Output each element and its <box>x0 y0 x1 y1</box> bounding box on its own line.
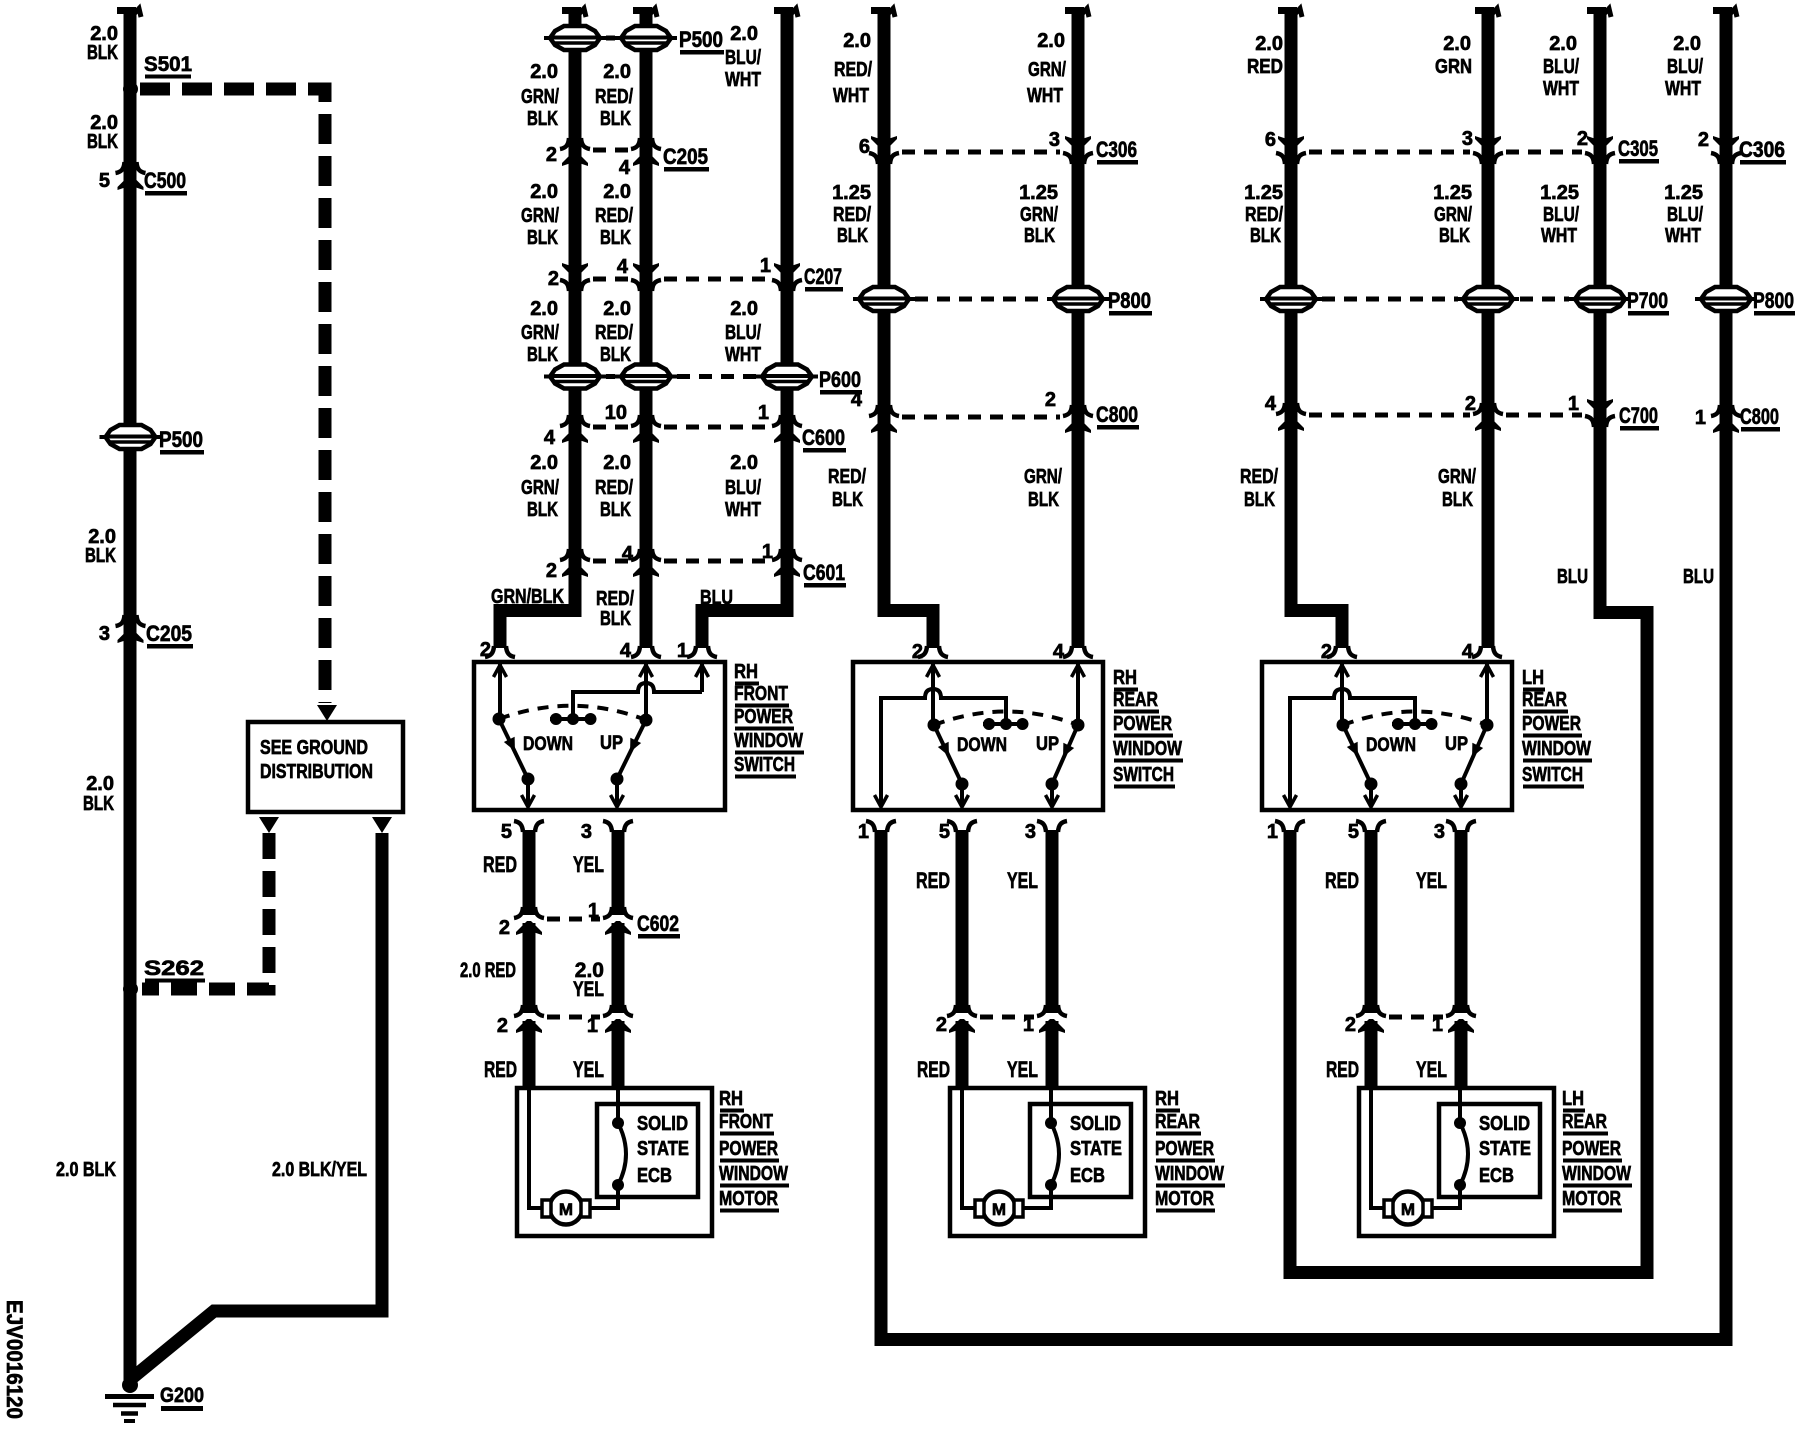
svg-text:MOTOR: MOTOR <box>719 1188 778 1210</box>
svg-text:WHT: WHT <box>1541 225 1577 247</box>
svg-text:3: 3 <box>581 821 592 843</box>
svg-text:SWITCH: SWITCH <box>734 754 795 776</box>
svg-text:4: 4 <box>617 256 629 278</box>
svg-text:GRN: GRN <box>1435 56 1472 78</box>
svg-text:C500: C500 <box>144 168 186 193</box>
svg-text:MOTOR: MOTOR <box>1562 1188 1621 1210</box>
svg-text:G200: G200 <box>160 1384 204 1407</box>
svg-text:1: 1 <box>1695 407 1706 429</box>
svg-text:POWER: POWER <box>1562 1138 1621 1160</box>
svg-text:S262: S262 <box>144 957 204 980</box>
splice S501 <box>123 53 192 97</box>
motor connector front pins 2 1 <box>497 1005 633 1037</box>
splice S262 <box>123 957 205 997</box>
svg-text:GRN/: GRN/ <box>521 322 559 344</box>
wire RED to rear motor <box>956 1021 969 1088</box>
wire YEL from LH rear switch pin 3 <box>1455 830 1468 1013</box>
svg-text:BLK: BLK <box>85 545 116 567</box>
label RED/BLK (E1) <box>1240 466 1278 511</box>
label YEL rear lower <box>1007 1057 1038 1082</box>
label 1.25 RED/BLK <box>832 182 871 247</box>
svg-text:3: 3 <box>1434 821 1445 843</box>
wire RED to front motor <box>523 1021 536 1088</box>
wire YEL from switch pin 3 <box>612 830 625 915</box>
svg-text:C305: C305 <box>1618 136 1658 161</box>
RH front power window switch box <box>474 662 725 810</box>
svg-text:5: 5 <box>99 170 110 192</box>
svg-text:2: 2 <box>499 917 510 939</box>
label RED lower <box>484 1057 517 1082</box>
svg-text:GRN/: GRN/ <box>1028 59 1066 81</box>
svg-text:GRN/BLK: GRN/BLK <box>491 586 564 608</box>
svg-text:S501: S501 <box>144 53 192 76</box>
svg-text:5: 5 <box>501 821 512 843</box>
label 2.0 GRN/BLK block4 <box>521 452 559 521</box>
label BLU (E4) <box>1683 566 1714 588</box>
svg-text:4: 4 <box>544 427 556 449</box>
RH front power window motor <box>517 1088 712 1236</box>
svg-text:BLK: BLK <box>87 42 118 64</box>
label 2.0 RED/BLK block1 <box>595 61 633 130</box>
svg-text:BLK: BLK <box>600 608 631 630</box>
svg-text:6: 6 <box>1265 129 1276 151</box>
connector C305 pins 6 3 2 <box>1265 128 1659 164</box>
svg-text:BLK: BLK <box>1244 489 1275 511</box>
svg-text:3: 3 <box>1049 129 1060 151</box>
switch pin numbers LH rear <box>1267 641 1474 843</box>
label BLU (E3) <box>1557 566 1588 588</box>
wire 2.0 RED/BLK (RH front) <box>633 7 657 648</box>
svg-text:2: 2 <box>546 560 557 582</box>
svg-text:1.25: 1.25 <box>832 182 871 204</box>
switch pin 5 terminal below <box>501 821 544 843</box>
svg-text:2: 2 <box>1465 393 1476 415</box>
label 2.0 BLK (fourth) <box>83 773 114 815</box>
connector C700 pins 4 2 1 <box>1265 393 1659 431</box>
svg-text:GRN/: GRN/ <box>1024 466 1062 488</box>
label GRN/BLK (E2) <box>1438 466 1476 511</box>
svg-text:2.0: 2.0 <box>730 23 758 45</box>
svg-text:1: 1 <box>1267 821 1278 843</box>
svg-text:UP: UP <box>1036 734 1059 755</box>
wire 2.0 BLU/WHT (far right) <box>1713 7 1737 1346</box>
svg-text:RED: RED <box>917 1057 950 1082</box>
connector C306 pins 6 3 <box>859 129 1138 165</box>
svg-text:C306: C306 <box>1096 137 1137 162</box>
svg-text:2.0: 2.0 <box>530 181 558 203</box>
svg-text:FRONT: FRONT <box>719 1111 773 1133</box>
svg-text:4: 4 <box>620 640 632 662</box>
svg-text:SWITCH: SWITCH <box>1113 764 1174 786</box>
svg-text:GRN/: GRN/ <box>521 477 559 499</box>
label 2.0 GRN/BLK block3 <box>521 298 559 366</box>
svg-text:RED/: RED/ <box>1240 466 1278 488</box>
svg-text:BLK: BLK <box>600 344 631 366</box>
svg-text:RED/: RED/ <box>1245 204 1283 226</box>
wire YEL to LH motor <box>1455 1021 1468 1088</box>
wire 2.0 GRN (LH rear) <box>1475 7 1499 648</box>
label 2.0 BLK (top) <box>87 23 118 64</box>
svg-text:1: 1 <box>858 821 869 843</box>
label 1.25 GRN/BLK (E2) <box>1433 182 1472 247</box>
label YEL <box>573 852 604 877</box>
label RED/BLK <box>596 588 634 630</box>
svg-text:1: 1 <box>760 255 771 277</box>
svg-text:WHT: WHT <box>1027 85 1063 107</box>
wire from RH rear switch pin 1 <box>875 830 888 1346</box>
svg-text:RED/: RED/ <box>595 86 633 108</box>
svg-text:2.0: 2.0 <box>530 61 558 83</box>
label LH REAR POWER WINDOW MOTOR <box>1562 1088 1632 1213</box>
label GRN/BLK <box>491 586 564 608</box>
wire dashed from box to splice S262 <box>142 833 269 989</box>
label YEL LH lower <box>1416 1057 1447 1082</box>
svg-text:POWER: POWER <box>719 1138 778 1160</box>
svg-text:WINDOW: WINDOW <box>1522 738 1591 760</box>
svg-text:C205: C205 <box>146 621 192 646</box>
svg-text:SOLID: SOLID <box>1479 1113 1530 1135</box>
label LH REAR POWER WINDOW SWITCH <box>1522 667 1592 789</box>
svg-text:SOLID: SOLID <box>637 1113 688 1135</box>
wire 2.0 RED <box>523 923 536 1013</box>
svg-text:WHT: WHT <box>725 499 761 521</box>
svg-text:SEE GROUND: SEE GROUND <box>260 737 368 759</box>
svg-text:C601: C601 <box>803 560 845 585</box>
svg-text:BLU/: BLU/ <box>725 477 761 499</box>
svg-text:WHT: WHT <box>1665 78 1701 100</box>
svg-text:2.0: 2.0 <box>603 61 631 83</box>
svg-text:SOLID: SOLID <box>1070 1113 1121 1135</box>
figure number EJV0016120 <box>2 1300 27 1419</box>
svg-text:2.0: 2.0 <box>730 298 758 320</box>
svg-text:BLU/: BLU/ <box>1667 204 1703 226</box>
connector C205 pin 3 on left wire <box>99 615 193 649</box>
label 2.0 RED/BLK block3 <box>595 298 633 366</box>
svg-text:WINDOW: WINDOW <box>734 730 803 752</box>
svg-text:WHT: WHT <box>833 85 869 107</box>
svg-text:RED/: RED/ <box>595 205 633 227</box>
svg-text:POWER: POWER <box>1522 713 1581 735</box>
motor connector rear pins 2 1 <box>936 1005 1067 1036</box>
svg-text:DISTRIBUTION: DISTRIBUTION <box>260 761 373 783</box>
svg-text:RH: RH <box>1155 1088 1179 1110</box>
svg-text:2.0 BLK: 2.0 BLK <box>56 1159 116 1181</box>
label YEL LH <box>1416 868 1447 893</box>
wire YEL from RH rear switch pin 3 <box>1046 830 1059 1013</box>
svg-text:BLU/: BLU/ <box>1543 204 1579 226</box>
svg-text:REAR: REAR <box>1113 689 1158 711</box>
svg-text:RED/: RED/ <box>595 322 633 344</box>
svg-text:LH: LH <box>1562 1088 1584 1110</box>
svg-text:C800: C800 <box>1096 402 1138 427</box>
svg-text:GRN/: GRN/ <box>521 205 559 227</box>
svg-text:2: 2 <box>480 639 491 661</box>
svg-text:C207: C207 <box>804 264 842 289</box>
connector C205 pins 2 and 4 <box>546 138 709 179</box>
wire YEL to rear motor <box>1046 1021 1059 1088</box>
svg-text:5: 5 <box>1348 821 1359 843</box>
wire from LH rear switch pin 1 <box>1284 830 1654 1279</box>
svg-text:WHT: WHT <box>725 344 761 366</box>
svg-text:LH: LH <box>1522 667 1544 689</box>
wire 2.0 GRN/BLK (RH front) <box>494 7 587 648</box>
svg-text:BLK: BLK <box>1024 225 1055 247</box>
label 2.0 GRN/WHT <box>1027 30 1066 107</box>
svg-text:BLK: BLK <box>1439 225 1470 247</box>
label YEL lower <box>573 1057 604 1082</box>
label 2.0 BLU/WHT block4 <box>725 452 761 521</box>
arrow out of box left <box>259 817 279 833</box>
label 2.0 BLU/WHT (E4) <box>1665 33 1703 100</box>
label 2.0 RED <box>460 959 516 982</box>
svg-text:C700: C700 <box>1619 403 1658 428</box>
svg-text:WHT: WHT <box>725 69 761 91</box>
grommet P800 pair <box>853 287 1152 316</box>
svg-text:WINDOW: WINDOW <box>1113 738 1182 760</box>
svg-text:BLK: BLK <box>837 225 868 247</box>
svg-text:2.0: 2.0 <box>1037 30 1065 52</box>
svg-text:BLK: BLK <box>527 499 558 521</box>
label BLU <box>700 587 733 609</box>
switch pin 2 terminal <box>480 639 515 661</box>
svg-text:2.0: 2.0 <box>603 452 631 474</box>
svg-text:STATE: STATE <box>637 1138 689 1160</box>
svg-text:STATE: STATE <box>1479 1138 1531 1160</box>
svg-text:M: M <box>992 1200 1006 1219</box>
svg-text:RED: RED <box>1325 868 1359 893</box>
svg-text:DOWN: DOWN <box>1366 735 1416 756</box>
svg-text:RH: RH <box>734 661 758 683</box>
motor connector LH pins 2 1 <box>1345 1005 1476 1036</box>
svg-text:STATE: STATE <box>1070 1138 1122 1160</box>
svg-text:2: 2 <box>497 1015 508 1037</box>
arrow into ground distribution box <box>317 705 337 721</box>
label RED rear <box>916 868 950 893</box>
svg-text:2: 2 <box>1321 641 1332 663</box>
wire RED from LH rear switch pin 5 <box>1365 830 1378 1013</box>
ground G200 <box>105 1377 204 1421</box>
LH rear power window switch <box>1262 646 1512 832</box>
connector C306 pin 2 far right <box>1698 129 1786 165</box>
svg-text:1: 1 <box>1023 1014 1034 1036</box>
RH rear power window switch <box>853 646 1103 832</box>
svg-text:REAR: REAR <box>1522 689 1567 711</box>
connector C800 pins 4 2 <box>851 389 1139 433</box>
connector C500 pin 5 <box>99 162 187 196</box>
svg-text:BLU: BLU <box>1557 566 1588 588</box>
svg-text:RED: RED <box>483 852 517 877</box>
svg-text:BLK: BLK <box>600 499 631 521</box>
svg-text:MOTOR: MOTOR <box>1155 1188 1214 1210</box>
svg-text:1.25: 1.25 <box>1244 182 1283 204</box>
svg-text:GRN/: GRN/ <box>521 86 559 108</box>
svg-text:YEL: YEL <box>1007 868 1038 893</box>
svg-text:BLU/: BLU/ <box>1543 56 1579 78</box>
svg-text:UP: UP <box>1445 734 1468 755</box>
svg-text:3: 3 <box>1462 128 1473 150</box>
svg-text:SWITCH: SWITCH <box>1522 764 1583 786</box>
svg-text:2: 2 <box>548 268 559 290</box>
label 2.0 BLU/WHT (E3) <box>1543 33 1579 100</box>
svg-text:2: 2 <box>912 641 923 663</box>
svg-text:WINDOW: WINDOW <box>1155 1163 1224 1185</box>
label 2.0 RED <box>1247 33 1283 78</box>
svg-text:RH: RH <box>719 1088 743 1110</box>
svg-text:2.0 RED: 2.0 RED <box>460 959 516 982</box>
svg-text:RED/: RED/ <box>828 466 866 488</box>
svg-text:2: 2 <box>936 1014 947 1036</box>
svg-text:2.0 BLK/YEL: 2.0 BLK/YEL <box>272 1159 367 1181</box>
svg-text:2.0: 2.0 <box>1443 33 1471 55</box>
svg-text:RED/: RED/ <box>596 588 634 610</box>
label 2.0 RED/BLK block4 <box>595 452 633 521</box>
connector C601 pins 2 4 1 <box>546 541 846 588</box>
wire 2.0 RED/WHT (RH rear) <box>871 7 940 648</box>
box SEE GROUND DISTRIBUTION <box>248 722 403 812</box>
svg-text:2.0: 2.0 <box>530 452 558 474</box>
svg-text:2.0: 2.0 <box>86 773 114 795</box>
grommet P800 far right <box>1695 287 1795 316</box>
wire 2.0 BLU/WHT (RH front) <box>696 7 799 648</box>
connector C600 pins 4 10 1 <box>544 402 846 453</box>
svg-text:RED/: RED/ <box>595 477 633 499</box>
svg-text:4: 4 <box>619 157 631 179</box>
svg-text:1: 1 <box>587 1015 598 1037</box>
svg-text:YEL: YEL <box>1416 868 1447 893</box>
svg-text:WHT: WHT <box>1543 78 1579 100</box>
svg-text:BLK: BLK <box>83 793 114 815</box>
svg-text:1.25: 1.25 <box>1019 182 1058 204</box>
svg-text:BLU: BLU <box>1683 566 1714 588</box>
label RED rear lower <box>917 1057 950 1082</box>
svg-text:ECB: ECB <box>1070 1165 1105 1187</box>
svg-text:BLK: BLK <box>87 131 118 153</box>
svg-text:C800: C800 <box>1740 404 1779 429</box>
grommet P700 row <box>1260 287 1669 316</box>
svg-text:BLK: BLK <box>600 227 631 249</box>
svg-text:RED: RED <box>1247 56 1283 78</box>
svg-text:2.0: 2.0 <box>603 181 631 203</box>
svg-text:1: 1 <box>1568 393 1579 415</box>
svg-text:M: M <box>1401 1200 1415 1219</box>
wire YEL to front motor <box>612 1021 625 1088</box>
arrow out of box right <box>372 817 392 833</box>
connector C800 pin 1 far right <box>1695 404 1780 433</box>
svg-text:GRN/: GRN/ <box>1020 204 1058 226</box>
svg-text:10: 10 <box>605 402 627 424</box>
wire 2.0 BLK/YEL from box to ground <box>131 833 382 1379</box>
svg-text:C600: C600 <box>802 425 845 450</box>
svg-text:1.25: 1.25 <box>1540 182 1579 204</box>
grommet P500 on left wire <box>100 425 205 455</box>
wire RED from switch pin 5 <box>523 830 536 915</box>
label YEL rear <box>1007 868 1038 893</box>
svg-text:2.0: 2.0 <box>603 298 631 320</box>
svg-text:BLK: BLK <box>1442 489 1473 511</box>
svg-text:P700: P700 <box>1627 288 1668 313</box>
svg-text:RED: RED <box>484 1057 517 1082</box>
wire 2.0 GRN/WHT (RH rear) <box>1065 7 1089 648</box>
svg-text:POWER: POWER <box>1113 713 1172 735</box>
label 2.0 BLU/WHT block3 <box>725 298 761 366</box>
svg-text:2: 2 <box>1698 129 1709 151</box>
svg-text:4: 4 <box>851 389 863 411</box>
svg-text:C306: C306 <box>1739 137 1785 162</box>
svg-text:POWER: POWER <box>1155 1138 1214 1160</box>
svg-text:DOWN: DOWN <box>957 735 1007 756</box>
svg-text:1.25: 1.25 <box>1664 182 1703 204</box>
wire 2.0 BLU/WHT (LH rear) <box>1587 7 1654 1279</box>
svg-text:DOWN: DOWN <box>523 734 573 755</box>
svg-text:1: 1 <box>677 640 688 662</box>
svg-text:RED: RED <box>916 868 950 893</box>
wire 2.0 YEL <box>612 923 625 1013</box>
svg-text:2.0: 2.0 <box>1549 33 1577 55</box>
label RH FRONT POWER WINDOW SWITCH <box>734 661 804 779</box>
connector C207 pins 2 4 1 <box>548 255 843 292</box>
grommet P600 row <box>544 365 862 395</box>
svg-text:C205: C205 <box>663 144 708 169</box>
switch internal circuit RH front <box>493 664 709 807</box>
label 1.25 GRN/BLK <box>1019 182 1058 247</box>
switch pin 3 terminal below <box>581 821 633 843</box>
svg-text:GRN/: GRN/ <box>1434 204 1472 226</box>
label 2.0 BLK (second) <box>87 112 118 153</box>
label RED LH <box>1325 868 1359 893</box>
svg-text:RED/: RED/ <box>833 204 871 226</box>
svg-text:FRONT: FRONT <box>734 683 788 705</box>
label 2.0 GRN/BLK block1 <box>521 61 559 130</box>
wire dashed from S501 to ground distribution <box>140 89 325 703</box>
svg-text:ECB: ECB <box>1479 1165 1514 1187</box>
svg-text:2.0: 2.0 <box>730 452 758 474</box>
svg-text:C602: C602 <box>637 911 679 936</box>
label 2.0 RED/WHT <box>833 30 872 107</box>
label 2.0 YEL <box>573 959 604 1001</box>
svg-text:REAR: REAR <box>1155 1111 1200 1133</box>
svg-text:4: 4 <box>622 543 634 565</box>
label 1.25 RED/BLK (E1) <box>1244 182 1283 247</box>
label 2.0 BLK/YEL <box>272 1159 367 1181</box>
svg-text:4: 4 <box>1265 393 1277 415</box>
svg-text:BLK: BLK <box>527 344 558 366</box>
label RH FRONT POWER WINDOW MOTOR <box>719 1088 789 1213</box>
svg-text:2: 2 <box>1045 389 1056 411</box>
svg-text:3: 3 <box>99 623 110 645</box>
svg-text:2: 2 <box>1577 128 1588 150</box>
svg-text:YEL: YEL <box>573 1057 604 1082</box>
label RH REAR POWER WINDOW MOTOR <box>1155 1088 1225 1213</box>
grommet P500 pair <box>544 26 724 55</box>
wire bottom route to RH rear switch pin 1 <box>875 1333 1733 1346</box>
svg-text:4: 4 <box>1462 641 1474 663</box>
label 2.0 BLU/WHT block1 <box>725 23 761 91</box>
label 2.0 BLK (third) <box>85 526 116 567</box>
wire 2.0 BLK left main vertical <box>117 7 141 1380</box>
svg-text:BLK: BLK <box>527 108 558 130</box>
svg-text:2.0: 2.0 <box>843 30 871 52</box>
connector C602 pins 2 1 <box>499 900 680 939</box>
wire RED to LH motor <box>1365 1021 1378 1088</box>
svg-text:RED/: RED/ <box>834 59 872 81</box>
label 2.0 GRN <box>1435 33 1472 78</box>
svg-text:BLK: BLK <box>1028 489 1059 511</box>
svg-text:BLU/: BLU/ <box>725 322 761 344</box>
svg-text:YEL: YEL <box>573 852 604 877</box>
svg-text:BLK: BLK <box>527 227 558 249</box>
svg-text:YEL: YEL <box>573 978 604 1001</box>
svg-text:6: 6 <box>859 136 870 158</box>
